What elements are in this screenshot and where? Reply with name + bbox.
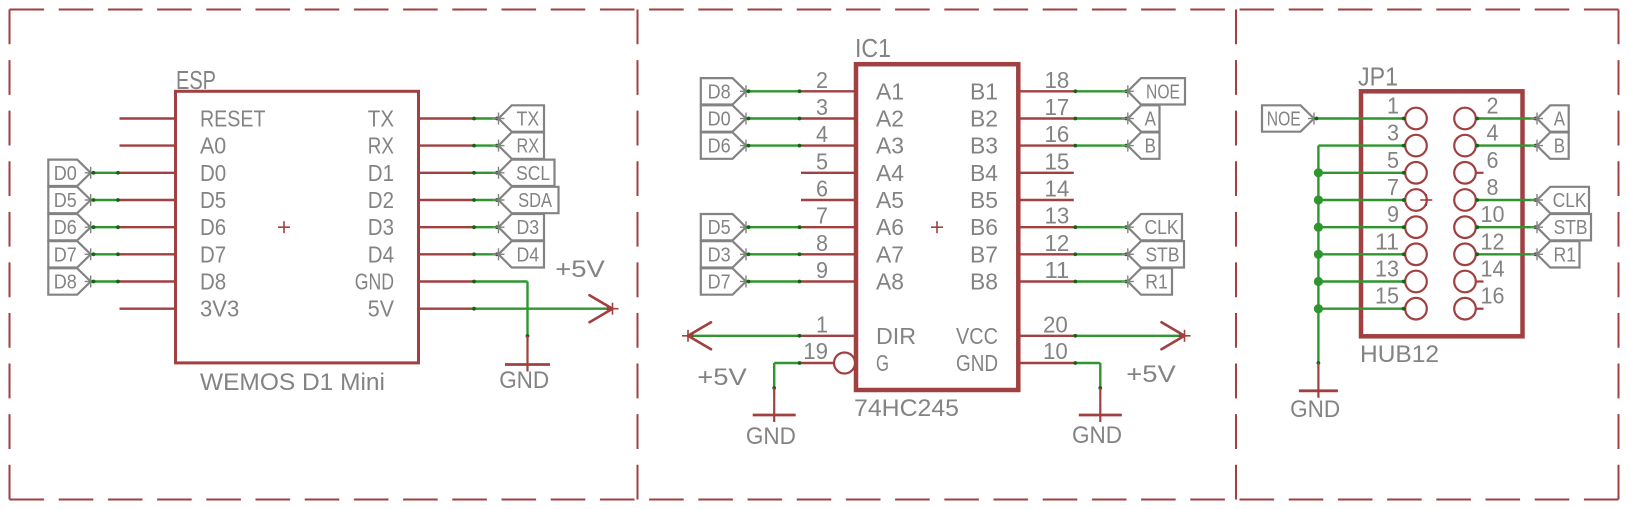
svg-text:20: 20 (1043, 311, 1068, 337)
wire IC1 to net A (1073, 117, 1128, 121)
connector JP1 body (HUB12) (1361, 91, 1523, 336)
wire ESP 5V to +5V (472, 307, 610, 311)
wire JP1 pin 9 to ground bus (1318, 225, 1405, 229)
svg-text:NOE: NOE (1146, 81, 1180, 103)
svg-text:B6: B6 (970, 214, 998, 240)
pin D6 (ESP left) (120, 214, 227, 240)
net label B (JP1 output) (1531, 132, 1569, 158)
pin 14 (JP1 right) (1454, 256, 1504, 293)
svg-text:GND: GND (1290, 396, 1340, 423)
net label B (IC1 output) (1122, 132, 1160, 158)
svg-text:STB: STB (1146, 244, 1180, 266)
svg-text:16: 16 (1045, 121, 1070, 147)
svg-text:+5V: +5V (1126, 361, 1176, 388)
svg-text:A5: A5 (876, 187, 904, 213)
svg-text:10: 10 (1481, 201, 1505, 227)
net label D6 (IC1 input) (701, 132, 752, 158)
svg-text:14: 14 (1481, 256, 1505, 282)
net label D0 (ESP input) (48, 160, 96, 186)
svg-text:+5V: +5V (555, 256, 605, 283)
pin A3 / pin number 4 (IC1 left) (801, 121, 904, 159)
pin A1 / pin number 2 (IC1 left) (801, 67, 904, 105)
svg-text:D3: D3 (708, 244, 731, 266)
pin 12 (JP1 right) (1454, 228, 1504, 265)
part name IC1 (855, 35, 891, 63)
wire JP1 to net R1 (1475, 252, 1537, 256)
net label D7 (IC1 input) (701, 268, 752, 294)
svg-text:RX: RX (517, 136, 540, 158)
pin 3V3 (ESP left) (120, 296, 240, 322)
schematic frame bottom edge (10, 499, 1619, 501)
wire JP1 to net A (1475, 117, 1537, 121)
svg-text:D3: D3 (368, 214, 394, 240)
svg-text:B3: B3 (970, 133, 998, 159)
wire ESP to net D4 (472, 252, 499, 256)
pin A4 / pin number 5 (IC1 left) (801, 148, 904, 186)
wire ESP GND to ground (472, 280, 529, 338)
pin TX (ESP right) (368, 106, 473, 132)
svg-text:DIR: DIR (876, 323, 916, 349)
svg-text:IC1: IC1 (855, 35, 891, 63)
svg-text:CLK: CLK (1553, 190, 1587, 212)
svg-text:A: A (1145, 109, 1157, 131)
svg-text:12: 12 (1481, 228, 1505, 254)
net label NOE (IC1 output) (1122, 78, 1185, 104)
wire IC1 to net R1 (1073, 280, 1128, 284)
junction at pin 5 wire (1314, 168, 1323, 177)
svg-text:2: 2 (816, 67, 828, 93)
pin RX (ESP right) (368, 133, 473, 159)
ground GND (IC1 left) (746, 388, 796, 450)
pin A5 / pin number 6 (IC1 left) (801, 176, 904, 214)
svg-text:3: 3 (816, 94, 828, 120)
pin VCC / pin number 20 (IC1) (956, 311, 1074, 349)
svg-text:1: 1 (816, 311, 828, 337)
wire net D8 to IC1 (746, 89, 801, 93)
pin B7 / pin number 12 (IC1 right) (970, 230, 1074, 267)
svg-text:D0: D0 (200, 160, 226, 186)
svg-text:D7: D7 (54, 244, 77, 266)
wire ESP to net TX (472, 117, 499, 121)
svg-text:B1: B1 (970, 78, 998, 104)
supply +5V (VCC) (1126, 322, 1190, 388)
svg-text:A2: A2 (876, 106, 904, 132)
net label RX (ESP output) (493, 132, 545, 158)
pin D1 (ESP right) (368, 160, 473, 186)
schematic frame right edge (1618, 10, 1620, 500)
svg-text:SCL: SCL (516, 163, 550, 185)
net label R1 (JP1 output) (1531, 241, 1580, 267)
wire IC1 to net NOE (1073, 89, 1128, 93)
svg-text:D5: D5 (200, 187, 226, 213)
svg-text:D7: D7 (200, 241, 226, 267)
schematic frame top edge (10, 9, 1619, 11)
svg-text:TX: TX (517, 109, 540, 131)
svg-text:WEMOS D1 Mini: WEMOS D1 Mini (200, 369, 385, 396)
svg-text:7: 7 (1387, 174, 1399, 200)
pin 3 (JP1 left) (1387, 120, 1427, 157)
symbol origin cross ESP (278, 221, 290, 233)
svg-text:5V: 5V (368, 296, 395, 322)
svg-text:5: 5 (1387, 147, 1399, 173)
net label D5 (IC1 input) (701, 214, 752, 240)
svg-text:B5: B5 (970, 187, 998, 213)
svg-text:HUB12: HUB12 (1360, 341, 1439, 368)
svg-text:NOE: NOE (1267, 109, 1301, 131)
pin 5 (JP1 left) (1387, 147, 1427, 184)
svg-text:D1: D1 (368, 160, 394, 186)
svg-text:D4: D4 (368, 241, 394, 267)
svg-text:1: 1 (1387, 93, 1399, 119)
net label A (IC1 output) (1122, 105, 1160, 131)
net label NOE (JP1 input) (1262, 105, 1320, 131)
svg-text:TX: TX (368, 106, 394, 132)
net label SCL (ESP output) (493, 160, 555, 186)
pin 1 (JP1 left) (1387, 93, 1427, 130)
pin D0 (ESP left) (120, 160, 227, 186)
svg-text:A8: A8 (876, 269, 904, 295)
pin D5 (ESP left) (120, 187, 227, 213)
svg-text:GND: GND (1072, 422, 1122, 449)
section separator 2 (1235, 10, 1237, 500)
symbol origin cross IC1 (931, 221, 943, 233)
svg-text:D6: D6 (200, 214, 226, 240)
svg-text:12: 12 (1045, 230, 1070, 256)
net label D6 (ESP input) (48, 214, 96, 240)
pin GND / pin number 10 (IC1) (956, 338, 1074, 376)
pin B8 / pin number 11 (IC1 right) (970, 257, 1074, 295)
net label D8 (ESP input) (48, 268, 96, 294)
wire net NOE to JP1 pin 1 (1314, 117, 1406, 121)
module ESP body (WEMOS D1 Mini) (176, 91, 419, 363)
svg-text:+5V: +5V (697, 364, 747, 391)
svg-text:D3: D3 (517, 217, 540, 239)
net label D7 (ESP input) (48, 241, 96, 267)
wire JP1 pin 5 to ground bus (1318, 171, 1405, 175)
part value HUB12 (1360, 341, 1439, 368)
svg-text:4: 4 (1487, 120, 1499, 146)
svg-text:GND: GND (355, 269, 394, 295)
svg-text:CLK: CLK (1145, 217, 1179, 239)
pin D8 (ESP left) (120, 269, 227, 295)
pin D4 (ESP right) (368, 241, 473, 267)
ground GND (JP1) (1290, 363, 1340, 423)
svg-text:D5: D5 (54, 190, 77, 212)
svg-text:A6: A6 (876, 214, 904, 240)
part name JP1 (1358, 64, 1398, 92)
svg-text:17: 17 (1045, 94, 1070, 120)
wire net D7 to IC1 (746, 280, 801, 284)
wire net D5 to IC1 (746, 225, 801, 229)
pin B5 / pin number 14 (IC1 right) (970, 176, 1074, 214)
svg-text:A1: A1 (876, 78, 904, 104)
svg-text:G: G (876, 350, 889, 376)
svg-text:B8: B8 (970, 269, 998, 295)
svg-text:GND: GND (499, 367, 549, 394)
svg-text:13: 13 (1375, 256, 1399, 282)
wire ground bus (vertical) (1317, 146, 1321, 365)
part value 74HC245 (854, 395, 959, 422)
pin G / pin number 19 (IC1, inverted) (801, 338, 889, 376)
net label STB (IC1 output) (1122, 241, 1184, 267)
pin 5V (ESP right) (368, 296, 473, 322)
pin A2 / pin number 3 (IC1 left) (801, 94, 904, 132)
wire JP1 to net B (1475, 144, 1537, 148)
svg-text:D6: D6 (708, 136, 731, 158)
pin 10 (JP1 right) (1454, 201, 1504, 238)
net label D3 (ESP output) (493, 214, 545, 240)
svg-text:A4: A4 (876, 160, 904, 186)
pin D7 (ESP left) (120, 241, 227, 267)
net label R1 (IC1 output) (1122, 268, 1172, 294)
svg-text:GND: GND (746, 423, 796, 450)
wire JP1 to net STB (1475, 225, 1537, 229)
net label SDA (ESP output) (493, 187, 559, 213)
svg-text:RX: RX (368, 133, 394, 159)
wire IC1 to net STB (1073, 252, 1128, 256)
svg-text:7: 7 (816, 203, 828, 229)
svg-text:10: 10 (1043, 338, 1068, 364)
wire JP1 to net CLK (1475, 198, 1537, 202)
svg-text:3V3: 3V3 (200, 296, 239, 322)
net label D4 (ESP output) (493, 241, 545, 267)
wire net D6 to ESP (91, 225, 120, 229)
svg-text:A7: A7 (876, 241, 904, 267)
svg-text:B: B (1145, 136, 1156, 158)
pin A6 / pin number 7 (IC1 left) (801, 203, 904, 241)
wire JP1 pin 11 to ground bus (1318, 252, 1405, 256)
svg-text:3: 3 (1387, 120, 1399, 146)
pin D3 (ESP right) (368, 214, 473, 240)
svg-text:SDA: SDA (518, 190, 552, 212)
wire JP1 pin 3 to ground bus (1318, 144, 1405, 148)
pin 9 (JP1 left) (1387, 201, 1427, 238)
schematic frame left edge (9, 10, 11, 500)
part name ESP (176, 67, 216, 95)
wire JP1 pin 15 to ground bus (1318, 307, 1405, 311)
wire net D5 to ESP (91, 198, 120, 202)
svg-text:D0: D0 (54, 163, 77, 185)
wire net D0 to ESP (91, 171, 120, 175)
svg-text:11: 11 (1375, 228, 1399, 254)
junction at pin 9 wire (1314, 223, 1323, 232)
svg-text:8: 8 (1487, 174, 1499, 200)
svg-text:ESP: ESP (176, 67, 216, 95)
svg-text:A: A (1554, 109, 1566, 131)
pin GND (ESP right) (355, 269, 473, 295)
wire net D6 to IC1 (746, 144, 801, 148)
net label D3 (IC1 input) (701, 241, 752, 267)
svg-text:GND: GND (956, 350, 998, 376)
pin 8 (JP1 right) (1454, 174, 1498, 211)
net label A (JP1 output) (1531, 105, 1569, 131)
wire IC1 to net B (1073, 144, 1128, 148)
svg-text:B4: B4 (970, 160, 998, 186)
IC IC1 body (74HC245) (856, 64, 1018, 390)
ground GND (IC1 right) (1072, 388, 1122, 449)
junction at pin 13 wire (1314, 277, 1323, 286)
svg-text:B7: B7 (970, 241, 998, 267)
net label TX (ESP output) (493, 105, 545, 131)
pin A7 / pin number 8 (IC1 left) (801, 230, 904, 267)
svg-text:D4: D4 (517, 244, 540, 266)
pin 7 (JP1 left) (1387, 174, 1427, 211)
wire ESP to net RX (472, 144, 499, 148)
pin 15 (JP1 left) (1375, 283, 1427, 320)
svg-text:18: 18 (1045, 67, 1070, 93)
svg-text:A3: A3 (876, 133, 904, 159)
junction at pin 7 wire (1314, 195, 1323, 204)
pin 16 (JP1 right) (1454, 283, 1504, 320)
wire IC1 GND to ground (1073, 361, 1102, 390)
wire DIR to +5V (690, 334, 801, 338)
svg-text:D5: D5 (708, 217, 731, 239)
svg-text:16: 16 (1481, 283, 1505, 309)
pin D2 (ESP right) (368, 187, 473, 213)
svg-text:R1: R1 (1554, 244, 1577, 266)
net label CLK (IC1 output) (1122, 214, 1182, 240)
svg-text:D7: D7 (708, 272, 731, 294)
svg-text:13: 13 (1045, 203, 1070, 229)
wire JP1 pin 7 to ground bus (1318, 198, 1405, 202)
wire ESP to net SDA (472, 198, 499, 202)
svg-text:B2: B2 (970, 106, 998, 132)
pin B3 / pin number 16 (IC1 right) (970, 121, 1074, 159)
section separator 1 (637, 10, 639, 500)
svg-text:D8: D8 (54, 272, 77, 294)
wire G to ground (772, 361, 801, 390)
net label D5 (ESP input) (48, 187, 96, 213)
wire ESP to net SCL (472, 171, 499, 175)
junction at pin 15 wire (1314, 304, 1323, 313)
pin 11 (JP1 left) (1375, 228, 1427, 265)
svg-text:VCC: VCC (956, 323, 998, 349)
svg-text:D2: D2 (368, 187, 394, 213)
wire IC1 to net CLK (1073, 225, 1128, 229)
svg-text:5: 5 (816, 148, 828, 174)
svg-text:B: B (1554, 136, 1565, 158)
net label CLK (JP1 output) (1531, 187, 1589, 213)
pin B4 / pin number 15 (IC1 right) (970, 148, 1074, 186)
svg-text:JP1: JP1 (1358, 64, 1398, 92)
svg-text:74HC245: 74HC245 (854, 395, 959, 422)
supply +5V (DIR) (682, 322, 747, 391)
svg-text:RESET: RESET (200, 106, 266, 132)
pin A8 / pin number 9 (IC1 left) (801, 257, 904, 295)
svg-text:9: 9 (1387, 201, 1399, 227)
svg-text:15: 15 (1045, 148, 1070, 174)
pin 6 (JP1 right) (1454, 147, 1498, 184)
pin 2 (JP1 right) (1454, 93, 1498, 130)
svg-text:9: 9 (816, 257, 828, 283)
svg-text:2: 2 (1487, 93, 1499, 119)
svg-text:D8: D8 (708, 81, 731, 103)
svg-text:8: 8 (816, 230, 828, 256)
pin 4 (JP1 right) (1454, 120, 1498, 157)
svg-text:STB: STB (1554, 217, 1588, 239)
pin B2 / pin number 17 (IC1 right) (970, 94, 1074, 132)
wire ESP to net D3 (472, 225, 499, 229)
svg-text:6: 6 (816, 176, 828, 202)
pin A0 (ESP left) (120, 133, 227, 159)
wire net D0 to IC1 (746, 117, 801, 121)
part value WEMOS D1 Mini (200, 369, 385, 396)
symbol origin cross JP1 (1420, 194, 1432, 206)
wire net D7 to ESP (91, 252, 120, 256)
wire VCC to +5V (1073, 334, 1182, 338)
svg-text:4: 4 (816, 121, 828, 147)
ground GND (ESP) (499, 336, 550, 394)
wire net D3 to IC1 (746, 252, 801, 256)
svg-text:15: 15 (1375, 283, 1399, 309)
pin B1 / pin number 18 (IC1 right) (970, 67, 1074, 105)
supply +5V (ESP) (555, 256, 618, 322)
pin DIR / pin number 1 (IC1) (801, 311, 916, 349)
wire net D8 to ESP (91, 280, 120, 284)
svg-text:14: 14 (1045, 176, 1070, 202)
svg-text:19: 19 (803, 338, 828, 364)
svg-text:R1: R1 (1145, 272, 1168, 294)
svg-text:11: 11 (1045, 257, 1070, 283)
svg-text:D6: D6 (54, 217, 77, 239)
net label D8 (IC1 input) (701, 78, 752, 104)
net label STB (JP1 output) (1531, 214, 1591, 240)
wire JP1 pin 13 to ground bus (1318, 280, 1405, 284)
pin 13 (JP1 left) (1375, 256, 1427, 293)
junction at pin 11 wire (1314, 250, 1323, 259)
svg-text:6: 6 (1487, 147, 1499, 173)
net label D0 (IC1 input) (701, 105, 752, 131)
svg-text:D8: D8 (200, 269, 226, 295)
pin B6 / pin number 13 (IC1 right) (970, 203, 1074, 241)
svg-text:A0: A0 (200, 133, 226, 159)
pin RESET (ESP left) (120, 106, 266, 132)
svg-text:D0: D0 (708, 109, 731, 131)
